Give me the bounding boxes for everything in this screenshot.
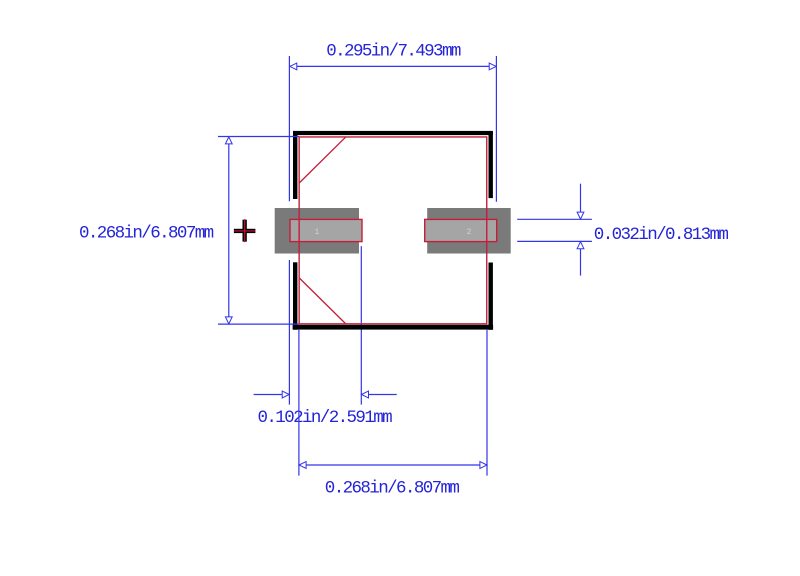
silkscreen polarity diagonal top-left [299,137,346,183]
right dimension upper leader line [580,184,582,219]
assembly outline black bottom edge [293,325,494,330]
top dimension line [290,65,496,67]
left dimension line [228,137,230,324]
top dimension left arrowhead [290,63,297,70]
right dimension lower leader line [580,242,582,276]
assembly outline black right edge upper segment [489,131,493,198]
pad 2 outer copper [427,208,511,254]
top dimension right arrowhead [489,63,496,70]
polarity plus marker black cross [234,229,256,233]
svg-text:2: 2 [467,228,472,237]
dimension ext line left of top dim (x=289.4, upper segment) [288,56,290,201]
pad 2 inner (solder mask) with red border [425,219,497,241]
pad 1 outer copper [275,208,359,254]
left dimension top arrowhead [225,137,232,144]
assembly outline black left edge lower segment [293,262,297,329]
polarity plus marker red crosshair [234,230,256,232]
assembly outline black left edge upper segment [293,131,297,199]
right dimension lower arrowhead (up) [577,242,584,249]
dimension ext line right of 0.102 dim (x=361.3) [360,246,362,405]
left dimension bottom extension line [218,323,299,325]
right dimension lower extension line [517,240,592,242]
0.102 dimension left leader line [254,394,283,396]
bottom dimension left extension line [298,330,300,476]
bottom dimension right extension line [486,330,488,476]
svg-text:0.295in/7.493mm: 0.295in/7.493mm [326,41,461,61]
svg-text:0.032in/0.813mm: 0.032in/0.813mm [594,225,729,245]
assembly outline black top edge [293,131,493,135]
silkscreen outline rectangle (red) [299,137,487,324]
left dimension bottom arrowhead [225,317,232,324]
0.102 dimension left arrowhead (right pointing) [282,391,289,398]
silkscreen polarity diagonal bottom-left [299,278,346,324]
0.102 dimension right leader line [368,394,397,396]
assembly outline black right edge lower segment [489,263,493,330]
dimension ext line left of 0.102 dim (x=289.4, lower segment) [288,260,290,405]
pad 1 inner (solder mask) with red border [290,219,362,241]
right dimension upper arrowhead (down) [577,212,584,219]
0.102 dimension right arrowhead (left pointing) [362,391,369,398]
svg-text:0.102in/2.591mm: 0.102in/2.591mm [258,408,393,428]
svg-text:0.268in/6.807mm: 0.268in/6.807mm [325,479,460,499]
right dimension upper extension line [517,218,592,220]
svg-text:0.268in/6.807mm: 0.268in/6.807mm [79,223,214,243]
left dimension top extension line [218,136,299,138]
dimension ext line right of top dim (x=496.4) [495,56,497,202]
bottom dimension left arrowhead [299,462,306,469]
bottom dimension line [299,464,487,466]
svg-text:1: 1 [314,228,319,237]
bottom dimension right arrowhead [480,462,487,469]
